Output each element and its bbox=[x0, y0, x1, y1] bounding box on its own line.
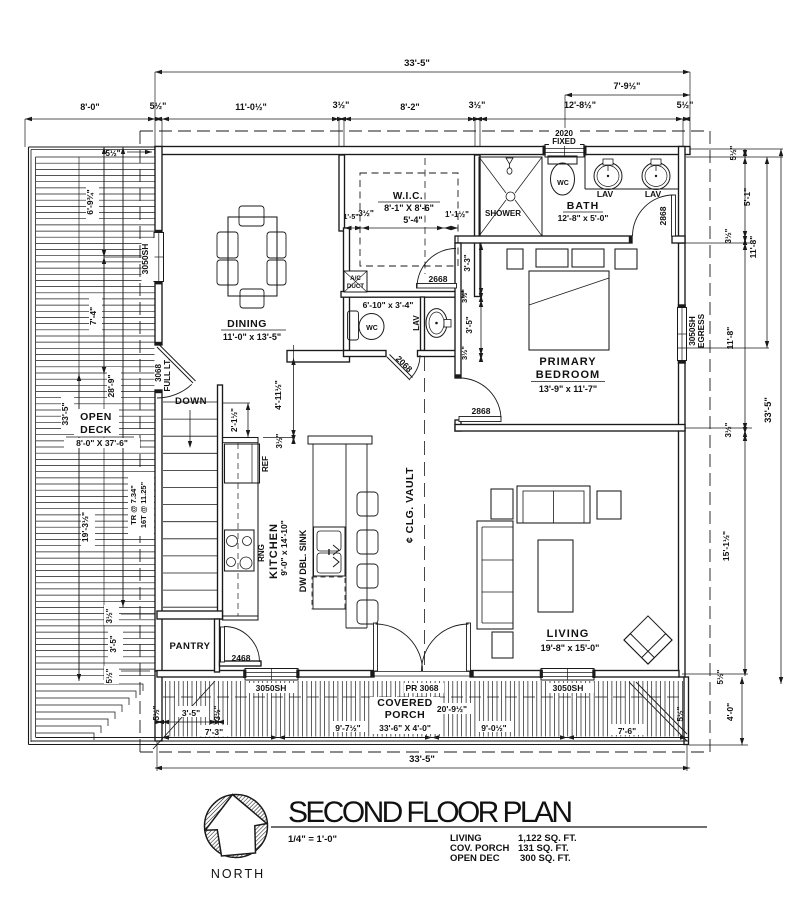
svg-text:3½": 3½" bbox=[213, 705, 222, 720]
svg-text:1'-1½": 1'-1½" bbox=[445, 210, 469, 219]
svg-text:2868: 2868 bbox=[658, 206, 668, 225]
wic south wall bbox=[341, 292, 463, 298]
svg-text:3½": 3½" bbox=[275, 433, 284, 448]
svg-text:EGRESS: EGRESS bbox=[697, 313, 706, 348]
bath counter bbox=[584, 155, 586, 190]
svg-text:REF: REF bbox=[261, 456, 270, 472]
dining table bbox=[228, 217, 277, 296]
svg-text:7'-4": 7'-4" bbox=[88, 307, 98, 325]
bottom dim 33-5 bbox=[156, 741, 158, 771]
wic dashed closet bbox=[360, 173, 458, 266]
svg-text:9'-0½": 9'-0½" bbox=[481, 723, 506, 733]
dim 4-0 porch bbox=[741, 677, 743, 745]
svg-text:33'-5": 33'-5" bbox=[763, 397, 774, 423]
porch dashed roofline bbox=[163, 696, 683, 698]
svg-text:11'-8": 11'-8" bbox=[725, 327, 735, 350]
svg-text:13'-9" x 11'-7": 13'-9" x 11'-7" bbox=[539, 384, 597, 394]
window 3050SH bottom-right bbox=[541, 669, 594, 681]
door 3068 full lt bbox=[157, 347, 193, 383]
svg-text:3½": 3½" bbox=[333, 100, 350, 110]
svg-text:11'-8": 11'-8" bbox=[748, 236, 758, 259]
svg-text:DINING: DINING bbox=[227, 318, 267, 330]
toilet wc room bbox=[348, 311, 359, 340]
svg-text:2468: 2468 bbox=[232, 653, 251, 663]
roof overhang dashed outline bbox=[140, 130, 710, 132]
pr3068 doors bbox=[374, 623, 378, 671]
svg-text:3½": 3½" bbox=[469, 100, 486, 110]
bedroom south wall bbox=[455, 425, 685, 432]
svg-text:12'-8" x 5'-0": 12'-8" x 5'-0" bbox=[558, 213, 609, 223]
svg-text:6'-10" x 3'-4": 6'-10" x 3'-4" bbox=[363, 300, 414, 310]
porch hatch bbox=[166, 681, 683, 737]
svg-text:DECK: DECK bbox=[80, 424, 112, 436]
dbl sink bbox=[314, 527, 346, 576]
svg-text:PRIMARY: PRIMARY bbox=[539, 356, 596, 368]
svg-text:11'-0" x 13'-5": 11'-0" x 13'-5" bbox=[223, 332, 281, 342]
ac duct bbox=[344, 271, 367, 292]
accent chair bbox=[624, 616, 672, 664]
dim 33-5 top bbox=[154, 72, 156, 119]
svg-text:8'-1" X 8'-6": 8'-1" X 8'-6" bbox=[384, 203, 434, 213]
porch dim rowB ticks bbox=[162, 735, 169, 739]
dim 7-9half bbox=[564, 95, 566, 128]
nightstand right bbox=[615, 249, 637, 269]
sofa top bbox=[517, 486, 590, 523]
stair east wall bbox=[218, 385, 223, 619]
svg-text:5½": 5½" bbox=[150, 101, 167, 111]
svg-text:3½": 3½" bbox=[460, 289, 469, 303]
door 2668 wic bbox=[417, 284, 457, 289]
svg-text:3050SH: 3050SH bbox=[140, 244, 150, 275]
svg-text:FULL LT.: FULL LT. bbox=[163, 358, 172, 391]
end table right bbox=[597, 491, 621, 519]
sofa left bbox=[477, 521, 513, 629]
lav sinks bath bbox=[594, 163, 622, 190]
pillows bbox=[536, 249, 568, 267]
svg-text:3'-5": 3'-5" bbox=[109, 635, 118, 652]
svg-text:1/4" = 1'-0": 1/4" = 1'-0" bbox=[288, 834, 337, 845]
range bbox=[225, 530, 255, 571]
door 2868 bath bbox=[672, 195, 676, 236]
svg-text:DUCT: DUCT bbox=[347, 283, 364, 290]
svg-text:7'-3": 7'-3" bbox=[205, 727, 223, 737]
wc lav divider bbox=[421, 297, 425, 351]
right wall bbox=[679, 147, 686, 244]
hall stub wall bbox=[220, 661, 262, 666]
small table bbox=[492, 632, 513, 658]
svg-text:5½": 5½" bbox=[105, 668, 114, 683]
window 3050SH bottom-left bbox=[245, 669, 298, 681]
svg-text:LAV: LAV bbox=[597, 189, 614, 199]
svg-text:33'-6" X 4'-0": 33'-6" X 4'-0" bbox=[379, 723, 431, 733]
dim row2 bbox=[24, 119, 26, 147]
svg-text:8'-0": 8'-0" bbox=[80, 102, 99, 112]
svg-text:4'-0": 4'-0" bbox=[725, 703, 735, 721]
porch dim rowA bbox=[157, 721, 222, 723]
svg-text:COVERED: COVERED bbox=[377, 697, 432, 709]
island cap bbox=[308, 436, 372, 444]
svg-text:28'-9": 28'-9" bbox=[106, 374, 116, 397]
svg-text:5'-4": 5'-4" bbox=[403, 215, 422, 225]
svg-text:19'-3½": 19'-3½" bbox=[80, 512, 90, 542]
svg-text:¢ CLG. VAULT: ¢ CLG. VAULT bbox=[404, 467, 416, 543]
svg-text:FIXED: FIXED bbox=[552, 137, 576, 146]
svg-text:2868: 2868 bbox=[472, 406, 491, 416]
svg-text:WC: WC bbox=[366, 325, 378, 332]
svg-text:3050SH: 3050SH bbox=[688, 316, 697, 346]
wic west wall bbox=[339, 155, 345, 231]
bath south wall bbox=[455, 236, 632, 243]
window 2020 FIXED bbox=[545, 145, 584, 158]
door 2068 bbox=[387, 357, 410, 380]
svg-text:SECOND FLOOR PLAN: SECOND FLOOR PLAN bbox=[288, 796, 575, 829]
svg-text:3050SH: 3050SH bbox=[256, 683, 287, 693]
svg-text:PR 3068: PR 3068 bbox=[405, 683, 438, 693]
door 2468 bbox=[221, 627, 225, 662]
porch diagonals bbox=[153, 681, 215, 749]
opening jambs bbox=[243, 670, 246, 679]
svg-text:A/C: A/C bbox=[350, 275, 361, 282]
svg-text:9'-7½": 9'-7½" bbox=[335, 723, 360, 733]
svg-text:11'-0½": 11'-0½" bbox=[235, 102, 266, 112]
window 3050SH left bbox=[154, 233, 164, 282]
svg-text:16T @ 11.25": 16T @ 11.25" bbox=[139, 481, 148, 528]
svg-text:1'-5": 1'-5" bbox=[343, 214, 358, 221]
toilet bath bbox=[548, 156, 577, 164]
svg-text:3'-3": 3'-3" bbox=[463, 254, 472, 271]
left dims bbox=[86, 184, 99, 220]
svg-text:3½": 3½" bbox=[460, 346, 469, 360]
svg-text:5½": 5½" bbox=[676, 706, 685, 721]
deck board breaks bbox=[78, 157, 80, 680]
stairs treads bbox=[163, 402, 218, 607]
svg-text:RNG: RNG bbox=[257, 544, 266, 562]
svg-text:15'-1½": 15'-1½" bbox=[721, 531, 731, 561]
dim 2-1half bbox=[223, 402, 251, 404]
svg-text:3½": 3½" bbox=[105, 608, 114, 623]
svg-text:19'-8" x 15'-0": 19'-8" x 15'-0" bbox=[541, 643, 600, 653]
wc west wall bbox=[344, 228, 350, 357]
window 3050SH EGRESS right bbox=[678, 308, 687, 361]
svg-text:5½": 5½" bbox=[106, 149, 121, 158]
svg-text:NORTH: NORTH bbox=[211, 867, 265, 881]
porch bands bbox=[36, 737, 689, 739]
deck plank hatch bbox=[36, 163, 155, 675]
svg-text:5½": 5½" bbox=[152, 705, 161, 720]
svg-text:2'-1½": 2'-1½" bbox=[230, 408, 239, 432]
svg-text:BATH: BATH bbox=[567, 200, 599, 212]
deck lower nested boards bbox=[36, 684, 143, 740]
wc south wall bbox=[344, 351, 387, 357]
end table left bbox=[491, 489, 513, 519]
svg-text:TR @ 7.34": TR @ 7.34" bbox=[129, 485, 138, 525]
svg-text:DOWN: DOWN bbox=[175, 396, 207, 407]
clg vault centerline bbox=[424, 297, 426, 351]
svg-text:3½": 3½" bbox=[724, 422, 733, 437]
svg-text:WC: WC bbox=[557, 180, 569, 187]
svg-text:6'-9¾": 6'-9¾" bbox=[85, 189, 95, 214]
nightstand left bbox=[507, 249, 523, 269]
kitchen counter bbox=[223, 438, 259, 621]
svg-text:3050SH: 3050SH bbox=[553, 683, 584, 693]
svg-text:33'-5": 33'-5" bbox=[404, 58, 430, 69]
bedroom west wall bbox=[455, 243, 461, 378]
svg-text:33'-5": 33'-5" bbox=[60, 402, 70, 425]
svg-text:PORCH: PORCH bbox=[385, 709, 425, 721]
svg-text:LIVING: LIVING bbox=[547, 628, 590, 640]
svg-text:3'-5": 3'-5" bbox=[465, 316, 474, 333]
svg-text:5½": 5½" bbox=[729, 145, 738, 160]
stair south wall bbox=[157, 611, 223, 619]
svg-text:12'-8½": 12'-8½" bbox=[564, 100, 596, 110]
svg-text:3½": 3½" bbox=[724, 228, 733, 243]
svg-text:5'-1": 5'-1" bbox=[742, 188, 752, 206]
svg-text:2668: 2668 bbox=[429, 274, 448, 284]
svg-text:SHOWER: SHOWER bbox=[485, 209, 521, 218]
svg-text:9'-0" x 14'-10": 9'-0" x 14'-10" bbox=[279, 520, 289, 576]
svg-text:20'-9½": 20'-9½" bbox=[437, 704, 467, 714]
svg-text:4'-11½": 4'-11½" bbox=[273, 380, 283, 410]
top wall bbox=[155, 147, 546, 155]
lav sink bbox=[426, 309, 447, 338]
open deck labels bbox=[74, 409, 119, 437]
svg-text:DW DBL. SINK: DW DBL. SINK bbox=[298, 529, 308, 592]
porch text underlays bbox=[370, 697, 440, 734]
svg-text:7'-9½": 7'-9½" bbox=[614, 81, 641, 91]
shower west wall bbox=[475, 155, 481, 297]
right dims bbox=[690, 148, 783, 150]
svg-text:33'-5": 33'-5" bbox=[409, 754, 435, 765]
svg-text:3½": 3½" bbox=[358, 208, 374, 218]
left wall bbox=[155, 147, 162, 234]
svg-text:3068: 3068 bbox=[154, 364, 163, 382]
svg-text:W.I.C.: W.I.C. bbox=[393, 191, 423, 202]
svg-text:BEDROOM: BEDROOM bbox=[536, 369, 600, 381]
dishwasher dashed bbox=[312, 577, 345, 609]
svg-text:5½": 5½" bbox=[677, 100, 694, 110]
svg-text:LAV: LAV bbox=[412, 315, 421, 331]
stools bbox=[357, 492, 378, 516]
dim 4-11half bbox=[293, 345, 295, 358]
refrigerator bbox=[225, 444, 260, 483]
svg-text:3'-5": 3'-5" bbox=[182, 708, 200, 718]
chairs bbox=[239, 206, 264, 226]
svg-text:OPEN DEC: OPEN DEC bbox=[450, 853, 500, 864]
bottom wall bbox=[157, 671, 247, 678]
svg-text:8'-2": 8'-2" bbox=[400, 102, 419, 112]
open deck boundary bbox=[28, 147, 30, 745]
pantry east wall bbox=[215, 619, 220, 672]
svg-text:300 SQ. FT.: 300 SQ. FT. bbox=[520, 853, 571, 864]
dining south stub wall bbox=[287, 351, 350, 363]
svg-text:OPEN: OPEN bbox=[80, 411, 112, 423]
shower bbox=[479, 157, 542, 236]
svg-text:8'-0" X 37'-6": 8'-0" X 37'-6" bbox=[76, 438, 128, 448]
door 2868 bedroom bbox=[459, 417, 501, 422]
island body bbox=[312, 444, 314, 609]
svg-text:PANTRY: PANTRY bbox=[170, 641, 211, 652]
svg-text:5½": 5½" bbox=[716, 669, 725, 684]
svg-text:7'-6": 7'-6" bbox=[618, 726, 636, 736]
bed bbox=[529, 271, 609, 350]
coffee table bbox=[538, 540, 573, 612]
